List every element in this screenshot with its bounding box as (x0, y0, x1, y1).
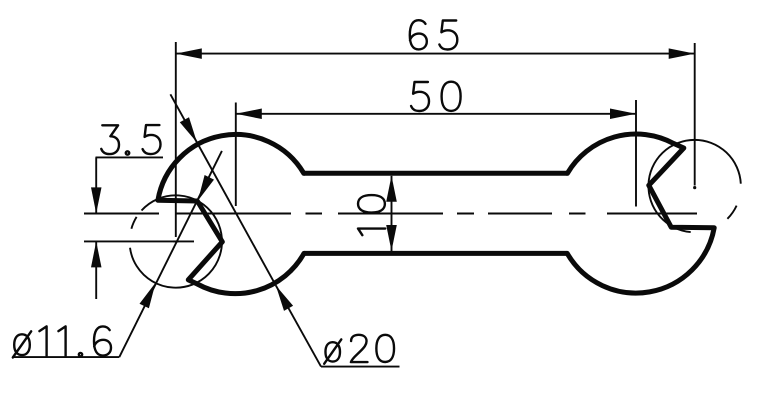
dim o11.6: leader line (119, 151, 222, 357)
dim 3.5: text underline (96, 156, 164, 158)
dim 65: dimension line (176, 53, 695, 55)
left jaw circle center mark (173, 240, 178, 242)
wrench outline: right head (567, 134, 714, 293)
wrench outline: handle bottom edge (304, 251, 567, 256)
dim 10: dimension line (391, 176, 393, 251)
dim 50: left extension line (235, 103, 237, 207)
dim o20: text (324, 339, 341, 363)
center line (dash-dot) (84, 213, 159, 215)
dim o11.6: upper arrow (198, 175, 214, 201)
dim 50: right extension line (635, 100, 637, 207)
dim 50: dimension line (236, 113, 636, 115)
dim o20: text underline (321, 366, 400, 368)
dim 3.5: top arrow (down) (91, 187, 102, 213)
dim o20: lower arrow (276, 286, 293, 311)
thin circle o11.6 (left jaw) dashed part (131, 217, 136, 229)
dim o20: leader line (170, 94, 197, 142)
dim o11.6: lower arrow (140, 283, 156, 309)
dim 10: bottom arrow (386, 225, 397, 251)
thin circle right jaw solid part (648, 140, 740, 232)
dim o20: upper arrow (180, 117, 197, 142)
dim 65: text (410, 20, 427, 49)
dim 65: right arrow (669, 48, 695, 59)
dim 65: left arrow (176, 48, 202, 59)
dim 50: text (411, 82, 429, 111)
dim 50: right arrow (610, 109, 636, 120)
dim 3.5: vertical line above (95, 157, 97, 212)
dim 3.5: lower reference line (84, 240, 194, 242)
wrench outline: handle top edge (304, 171, 568, 176)
right jaw circle center mark (693, 186, 696, 189)
thin circle right jaw dashed part (727, 206, 736, 219)
dim 3.5: vertical line below (95, 241, 97, 299)
wrench outline: left head (158, 134, 304, 293)
dim 65: right extension line (694, 43, 696, 186)
dim o11.6: text underline (13, 356, 119, 358)
dim 10: top arrow (386, 176, 397, 202)
dim 3.5: bottom arrow (up) (91, 241, 102, 267)
dim 65: left extension line (175, 42, 177, 237)
dim 50: left arrow (236, 109, 262, 120)
dim 10: text (rotated) (358, 195, 385, 235)
dim o11.6: text (13, 331, 31, 357)
thin circle o11.6 (left jaw) solid part (130, 195, 222, 287)
dim 3.5: text (101, 125, 119, 154)
